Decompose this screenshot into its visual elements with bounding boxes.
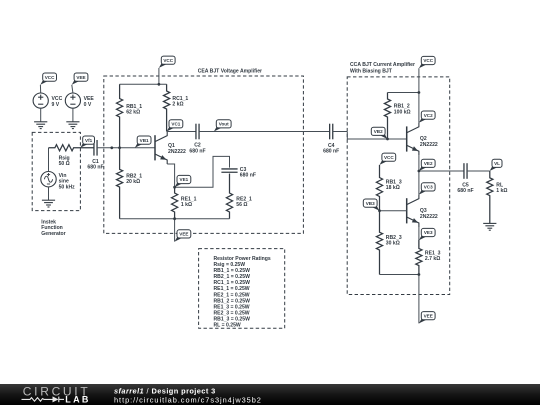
svg-text:680 nF: 680 nF [240,173,256,179]
svg-text:50 kHz: 50 kHz [59,184,76,190]
svg-text:RL = 0.25W: RL = 0.25W [214,323,241,329]
svg-text:680 nF: 680 nF [189,148,205,154]
svg-text:VCC: VCC [163,58,173,63]
svg-text:VB3: VB3 [366,201,375,206]
svg-text:9 V: 9 V [52,102,60,108]
svg-text:Vf1: Vf1 [85,138,93,143]
svg-text:VB1: VB1 [140,138,149,143]
svg-text:20 kΩ: 20 kΩ [126,179,140,185]
svg-text:VC3: VC3 [424,185,433,190]
svg-text:680 nF: 680 nF [457,188,473,194]
svg-text:Generator: Generator [41,231,65,237]
svg-text:30 kΩ: 30 kΩ [386,241,400,247]
svg-text:VB2: VB2 [374,129,383,134]
svg-text:VCC: VCC [423,58,433,63]
svg-text:1 kΩ: 1 kΩ [181,202,192,208]
svg-text:http://circuitlab.com/c7s3jn4j: http://circuitlab.com/c7s3jn4jw35b2 [114,396,262,405]
svg-text:LAB: LAB [65,395,90,405]
svg-text:100 kΩ: 100 kΩ [394,109,411,115]
svg-text:56 Ω: 56 Ω [236,202,247,208]
svg-text:18 kΩ: 18 kΩ [386,185,400,191]
svg-text:VE3: VE3 [424,230,433,235]
svg-text:VC1: VC1 [171,121,180,126]
svg-text:2.7 kΩ: 2.7 kΩ [425,256,440,262]
svg-text:2N2222: 2N2222 [420,214,438,220]
svg-text:VE1: VE1 [180,177,189,182]
svg-text:VEE: VEE [76,75,85,80]
svg-text:VEE: VEE [179,232,188,237]
svg-text:VL: VL [494,161,500,166]
svg-text:VC2: VC2 [424,113,433,118]
svg-text:CEA BJT Voltage Amplifier: CEA BJT Voltage Amplifier [198,69,262,75]
svg-text:680 nF: 680 nF [323,149,339,155]
svg-text:50 Ω: 50 Ω [59,161,70,167]
svg-text:1 kΩ: 1 kΩ [496,188,507,194]
svg-text:sfarrel1 / Design project 3: sfarrel1 / Design project 3 [114,386,216,395]
svg-text:With Biasing BJT: With Biasing BJT [350,69,393,75]
svg-text:Vout: Vout [219,121,229,126]
svg-text:VCC: VCC [384,155,394,160]
svg-text:62 kΩ: 62 kΩ [126,110,140,116]
svg-text:VCC: VCC [45,75,55,80]
svg-text:2N2222: 2N2222 [168,149,186,155]
svg-text:2 kΩ: 2 kΩ [172,101,183,107]
svg-text:CCA BJT Current Amplifier: CCA BJT Current Amplifier [350,62,415,68]
svg-text:VE2: VE2 [424,161,433,166]
svg-text:680 nF: 680 nF [87,165,103,171]
svg-text:2N2222: 2N2222 [420,142,438,148]
svg-text:0 V: 0 V [84,102,92,108]
svg-text:VEE: VEE [424,313,433,318]
